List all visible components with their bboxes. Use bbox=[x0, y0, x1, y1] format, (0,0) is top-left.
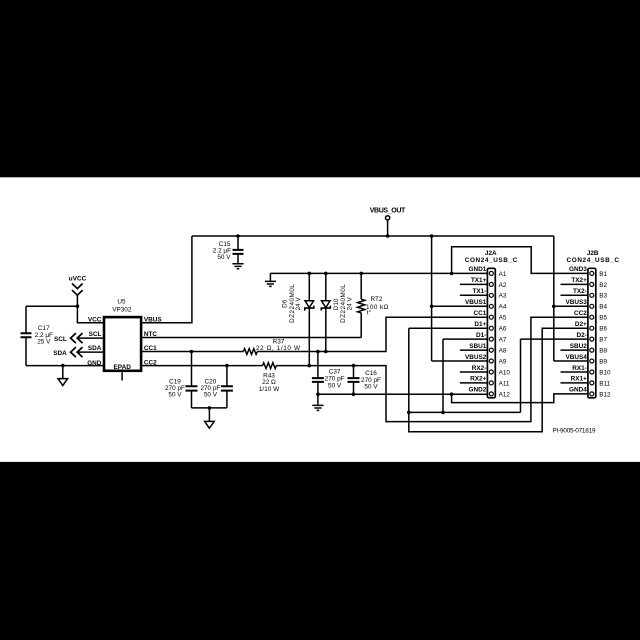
svg-text:D2+: D2+ bbox=[575, 321, 587, 328]
svg-text:25 V: 25 V bbox=[37, 339, 51, 346]
svg-text:TX2-: TX2- bbox=[573, 288, 587, 295]
svg-text:TX1+: TX1+ bbox=[471, 277, 487, 284]
svg-text:TX1-: TX1- bbox=[472, 288, 486, 295]
wire NTC from IC to RT2 bbox=[142, 337, 361, 339]
svg-text:J2B: J2B bbox=[587, 250, 599, 257]
junction dots bbox=[61, 234, 556, 414]
svg-text:D10: D10 bbox=[333, 298, 340, 310]
wire VBUS pin to top bus bbox=[142, 236, 192, 323]
connector J2A pin numbers bbox=[499, 271, 511, 399]
wire J2A stub pins TX1+ TX1- SBU1 RX2- RX2+ bbox=[460, 284, 488, 383]
wire C15 stem top bbox=[237, 236, 239, 250]
svg-text:GND2: GND2 bbox=[469, 387, 487, 394]
wire GND bus left drop bbox=[269, 273, 271, 281]
svg-text:A9: A9 bbox=[499, 358, 507, 365]
svg-text:VBUS2: VBUS2 bbox=[465, 354, 487, 361]
wire D1- route to D2- bbox=[409, 339, 588, 412]
svg-text:GND3: GND3 bbox=[569, 266, 587, 273]
capacitor C37 stem bbox=[317, 352, 319, 379]
svg-text:VCC: VCC bbox=[88, 316, 102, 323]
wire CC1 from IC to R37 bbox=[142, 351, 243, 353]
svg-text:CON24_USB_C: CON24_USB_C bbox=[465, 257, 518, 264]
svg-text:GND1: GND1 bbox=[469, 266, 487, 273]
wire CC1 from R37 to jog bbox=[257, 317, 487, 351]
svg-text:B12: B12 bbox=[599, 391, 611, 398]
svg-text:VBUS4: VBUS4 bbox=[565, 354, 587, 361]
resistor R37 bbox=[243, 349, 257, 355]
svg-text:B7: B7 bbox=[599, 337, 607, 344]
capacitor C37 bbox=[312, 378, 324, 382]
svg-text:uVCC: uVCC bbox=[69, 275, 87, 282]
capacitor C19 bbox=[186, 386, 198, 390]
wire top VBUS bus bbox=[192, 235, 554, 237]
svg-text:A2: A2 bbox=[499, 282, 507, 289]
svg-text:50 V: 50 V bbox=[217, 254, 231, 261]
wire C17 bottom column bbox=[25, 337, 27, 365]
capacitor C15 bbox=[233, 250, 244, 254]
svg-text:TX2+: TX2+ bbox=[571, 277, 587, 284]
wire C15 stem bottom bbox=[237, 254, 239, 264]
svg-text:NTC: NTC bbox=[144, 331, 158, 338]
ground earth below C15 bbox=[232, 264, 243, 269]
capacitor C17 bbox=[21, 333, 32, 337]
svg-text:GND4: GND4 bbox=[569, 387, 587, 394]
svg-text:CC2: CC2 bbox=[144, 359, 157, 366]
svg-text:J2A: J2A bbox=[485, 250, 497, 257]
wire EPAD stub bbox=[121, 372, 123, 380]
svg-text:EPAD: EPAD bbox=[114, 364, 132, 371]
connector J2B body bbox=[588, 268, 596, 398]
ground GND arrow below IC GND row bbox=[62, 366, 64, 379]
svg-text:VBUS: VBUS bbox=[144, 316, 162, 323]
svg-text:A3: A3 bbox=[499, 293, 507, 300]
capacitor C20 stem bbox=[226, 366, 228, 387]
svg-text:CC1: CC1 bbox=[144, 345, 157, 352]
svg-text:24 V: 24 V bbox=[295, 296, 302, 310]
connector J2A body bbox=[487, 268, 495, 398]
connector J2B pin circles bbox=[590, 271, 594, 396]
ground earth at GND bus left end bbox=[265, 281, 276, 286]
svg-text:RT2: RT2 bbox=[371, 296, 383, 303]
svg-text:B4: B4 bbox=[599, 304, 607, 311]
svg-text:1/10 W: 1/10 W bbox=[259, 386, 280, 393]
wire D1+ route to D2+ bbox=[409, 328, 588, 432]
node SDA input chevrons bbox=[71, 347, 83, 357]
svg-text:PI-9005-071819: PI-9005-071819 bbox=[553, 427, 596, 434]
svg-text:24 V: 24 V bbox=[347, 296, 354, 310]
svg-text:VP302: VP302 bbox=[112, 306, 132, 313]
svg-text:50 V: 50 V bbox=[168, 392, 182, 399]
svg-text:A7: A7 bbox=[499, 337, 507, 344]
wire GND1 to GND3 over-arch bbox=[452, 247, 588, 274]
wire GND bus over diodes bbox=[270, 272, 487, 274]
svg-text:B11: B11 bbox=[599, 380, 610, 387]
svg-text:VBUS_OUT: VBUS_OUT bbox=[370, 208, 406, 215]
diode D6 zener bbox=[308, 273, 310, 300]
svg-text:A1: A1 bbox=[499, 271, 507, 278]
wire uVCC stem to VCC pin bbox=[77, 295, 103, 323]
svg-text:D1+: D1+ bbox=[474, 321, 486, 328]
node uVCC power symbol bbox=[72, 284, 83, 296]
svg-text:CON24_USB_C: CON24_USB_C bbox=[567, 257, 620, 264]
svg-text:A8: A8 bbox=[499, 348, 507, 355]
svg-text:D1-: D1- bbox=[476, 332, 486, 339]
svg-text:B9: B9 bbox=[599, 358, 607, 365]
connector J2A pin circles bbox=[489, 271, 493, 396]
svg-text:SBU1: SBU1 bbox=[469, 343, 486, 350]
wire CC2 from R43 routed below to J2B CC2 bbox=[276, 317, 588, 421]
svg-text:A4: A4 bbox=[499, 304, 507, 311]
svg-text:B2: B2 bbox=[599, 282, 607, 289]
capacitor C20 bbox=[221, 386, 233, 390]
svg-text:SCL: SCL bbox=[89, 331, 102, 338]
op-amp U1 ... actually IC U5 body bbox=[104, 317, 141, 371]
svg-text:RX2+: RX2+ bbox=[470, 376, 486, 383]
svg-text:GND: GND bbox=[87, 360, 102, 367]
node VBUS_OUT terminal circle bbox=[386, 216, 390, 220]
capacitor C16 stem bbox=[353, 366, 355, 379]
svg-text:RX1+: RX1+ bbox=[571, 376, 587, 383]
svg-text:50 V: 50 V bbox=[364, 384, 378, 391]
svg-text:50 V: 50 V bbox=[204, 392, 218, 399]
svg-text:A10: A10 bbox=[499, 369, 511, 376]
svg-text:A11: A11 bbox=[499, 380, 510, 387]
wire J2B stub pins TX2+ TX2- SBU2 RX1- RX1+ bbox=[561, 284, 588, 383]
svg-text:SBU2: SBU2 bbox=[570, 343, 587, 350]
svg-text:CC2: CC2 bbox=[574, 310, 587, 317]
wire C17 top column bbox=[25, 306, 27, 333]
wire CC2 from IC to R43 bbox=[142, 365, 262, 367]
svg-text:SDA: SDA bbox=[53, 350, 67, 357]
wire VBUS riser to VBUS1 VBUS2 bbox=[432, 236, 488, 361]
resistor RT2 thermistor bbox=[360, 273, 362, 299]
resistor R43 bbox=[263, 363, 277, 369]
connector J2A pin name labels bbox=[465, 266, 487, 394]
diode D10 zener bbox=[325, 273, 327, 300]
svg-text:50 V: 50 V bbox=[328, 383, 342, 390]
svg-text:VBUS1: VBUS1 bbox=[465, 299, 487, 306]
svg-text:B3: B3 bbox=[599, 293, 607, 300]
svg-text:B10: B10 bbox=[599, 369, 611, 376]
ground earth below C37 bbox=[312, 405, 323, 410]
svg-text:RX2-: RX2- bbox=[472, 365, 487, 372]
node SCL input chevrons bbox=[71, 333, 83, 343]
svg-text:B6: B6 bbox=[599, 326, 607, 333]
wire SDA to IC bbox=[77, 351, 103, 353]
wire C19 C20 ground join bbox=[192, 407, 227, 409]
capacitor C19 stem bbox=[191, 352, 193, 387]
wire SCL to IC bbox=[77, 337, 103, 339]
svg-text:22 Ω, 1/10 W: 22 Ω, 1/10 W bbox=[256, 345, 301, 352]
svg-text:A5: A5 bbox=[499, 315, 507, 322]
svg-text:RX1-: RX1- bbox=[572, 365, 587, 372]
wire GND row to IC bbox=[26, 365, 103, 367]
ground GND arrow below C19 C20 bbox=[208, 408, 210, 422]
svg-text:D6: D6 bbox=[281, 299, 288, 308]
svg-text:SDA: SDA bbox=[88, 345, 102, 352]
connector J2B pin name labels bbox=[565, 266, 587, 394]
top letterbox bar bbox=[0, 0, 640, 177]
svg-text:CC1: CC1 bbox=[474, 310, 487, 317]
svg-text:A6: A6 bbox=[499, 326, 507, 333]
svg-text:B1: B1 bbox=[599, 271, 607, 278]
connector J2B pin numbers bbox=[599, 271, 611, 399]
svg-text:SCL: SCL bbox=[54, 336, 67, 343]
svg-text:B8: B8 bbox=[599, 348, 607, 355]
wire uVCC junction to C17 bbox=[26, 305, 77, 307]
svg-text:U5: U5 bbox=[117, 298, 126, 305]
capacitor C16 bbox=[348, 378, 360, 382]
svg-text:D2-: D2- bbox=[576, 332, 586, 339]
wire VBUS_OUT stem bbox=[387, 220, 389, 236]
wire VBUS bus right drop to VBUS3 VBUS4 bbox=[554, 236, 588, 361]
bottom letterbox bar bbox=[0, 462, 640, 640]
wire GND line from C37 to GND2 bbox=[318, 393, 488, 395]
svg-text:A12: A12 bbox=[499, 391, 511, 398]
svg-text:B5: B5 bbox=[599, 315, 607, 322]
svg-text:t°: t° bbox=[367, 309, 372, 317]
svg-text:VBUS3: VBUS3 bbox=[565, 299, 587, 306]
wire GND2 to GND4 under-arch bbox=[452, 394, 588, 403]
